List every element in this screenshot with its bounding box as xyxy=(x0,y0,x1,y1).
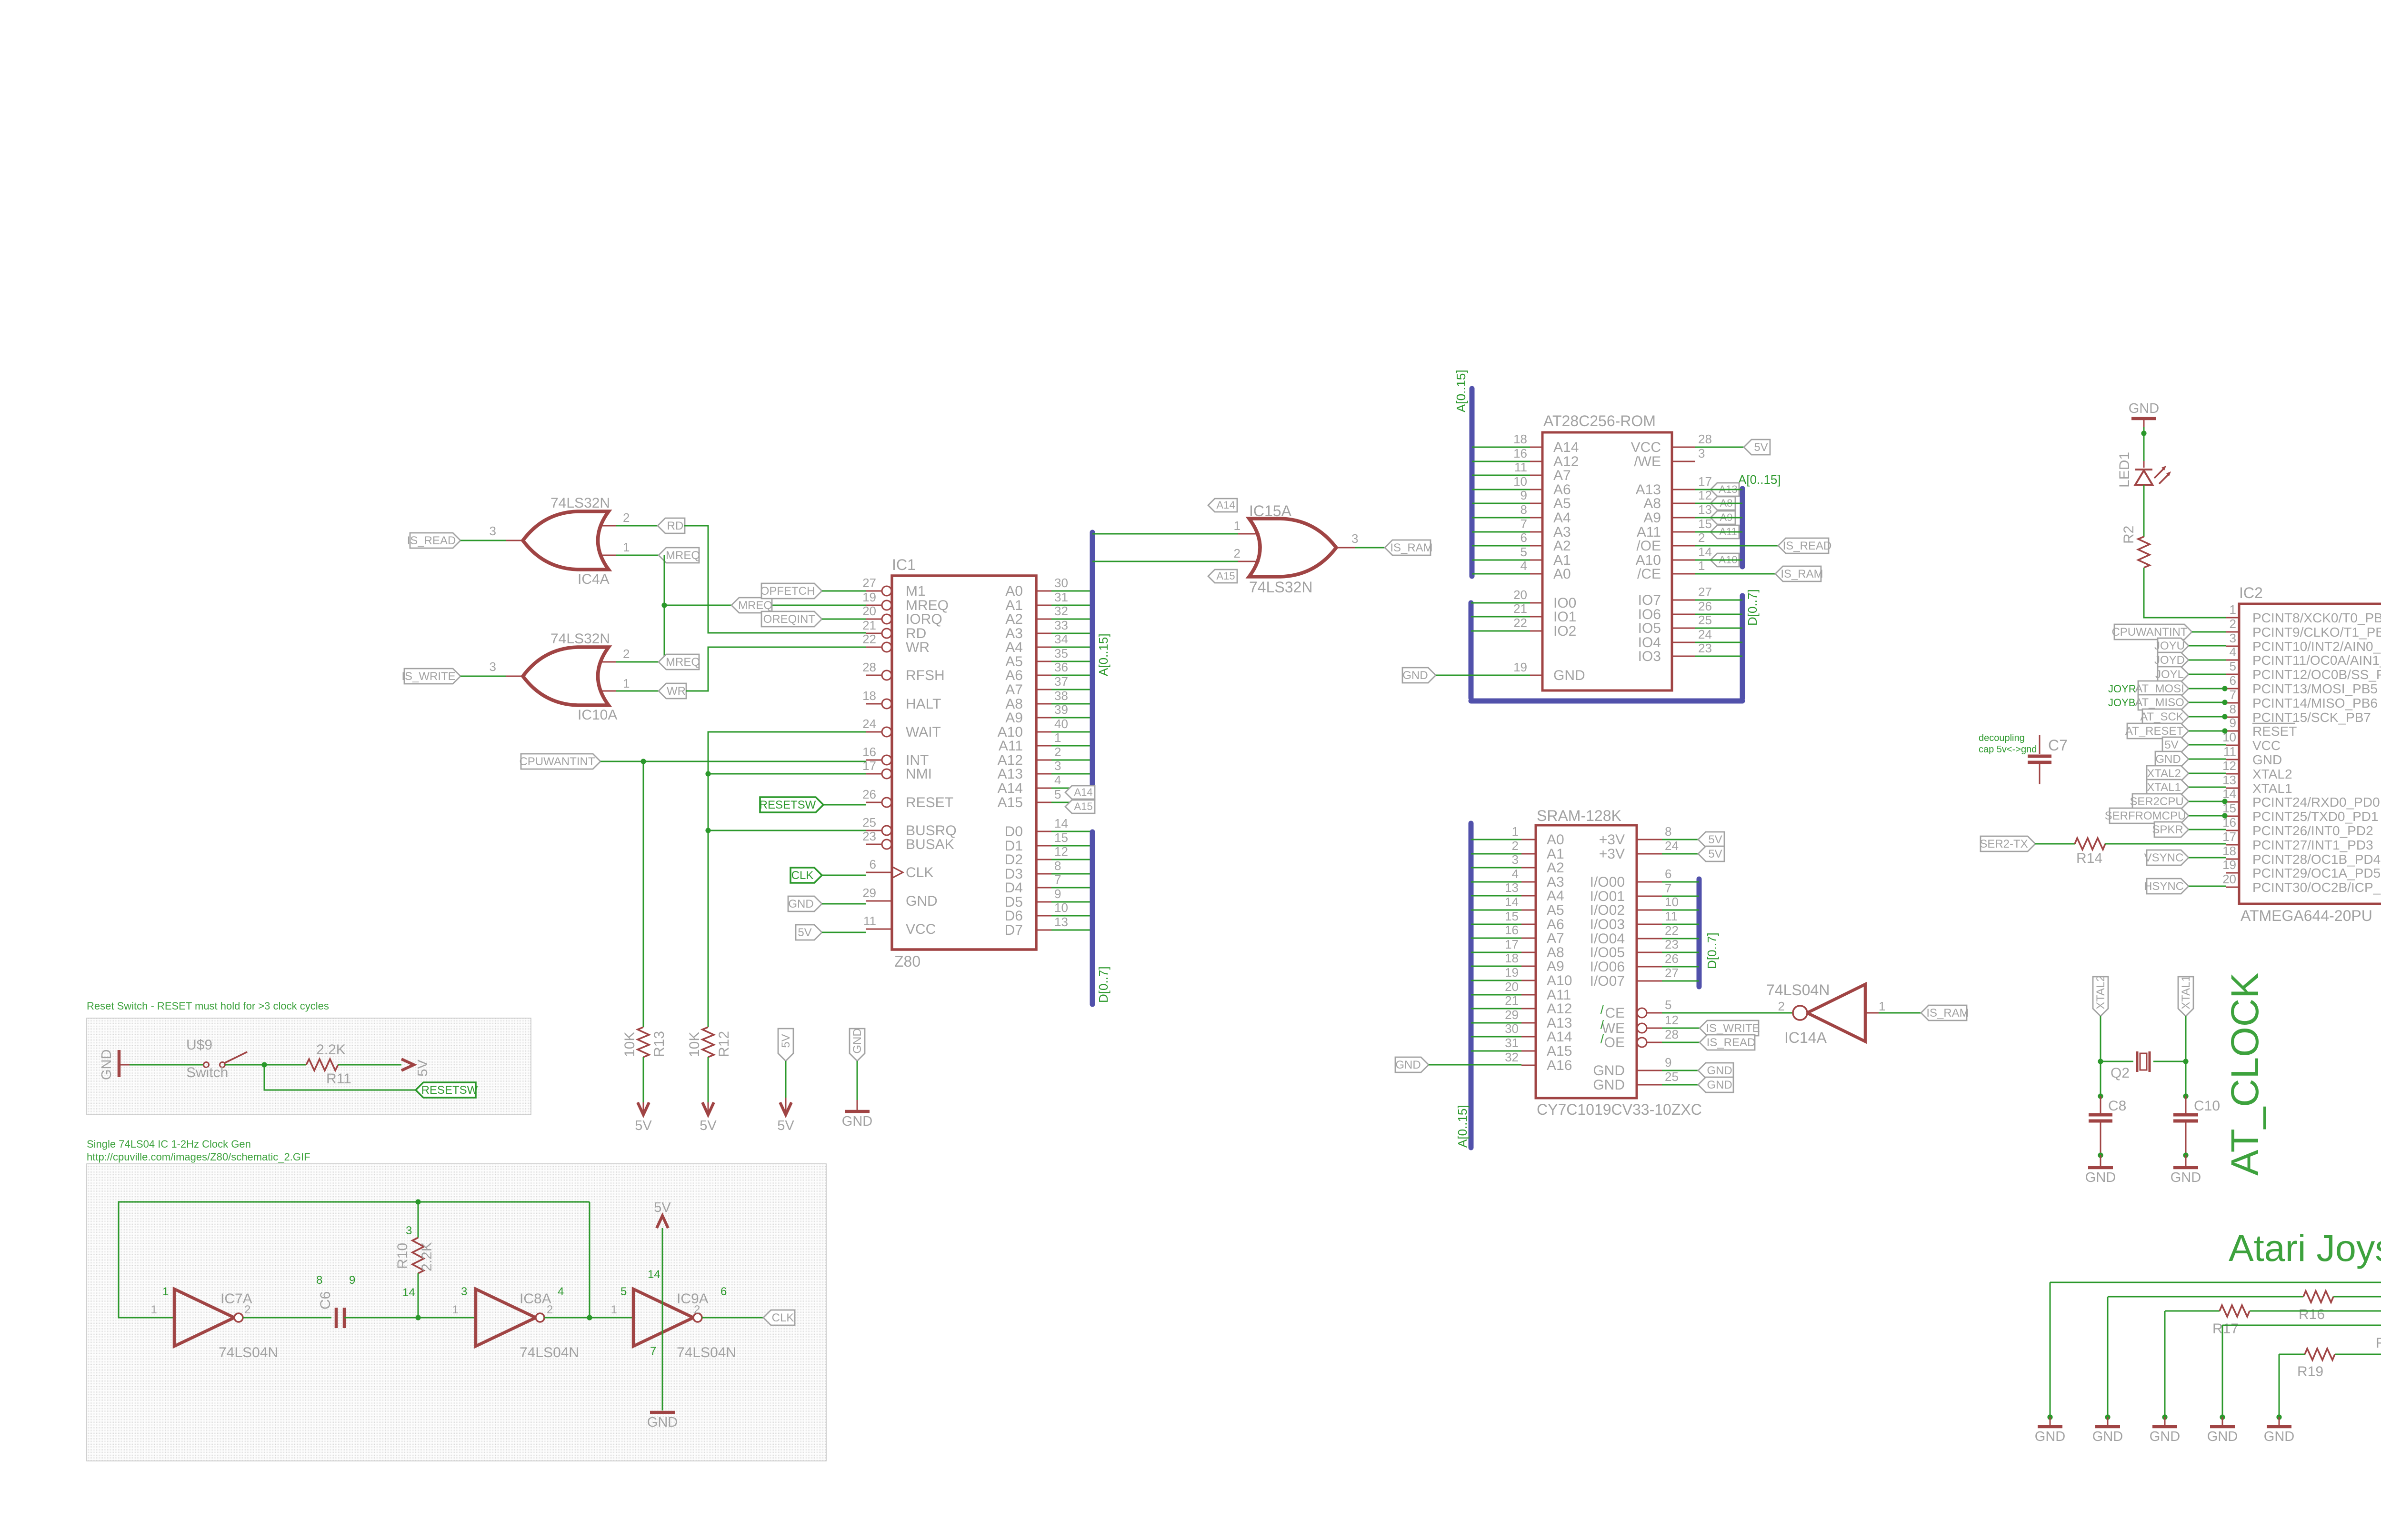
wire Z80 A9 to A-bus xyxy=(1051,717,1092,719)
flag IS_WRITE at SRAM xyxy=(1700,1020,1760,1036)
resistor R17 xyxy=(2212,1305,2250,1337)
wire R11 to 5V xyxy=(338,1064,401,1066)
wire SRAM A6 xyxy=(1471,924,1521,925)
svg-text:13: 13 xyxy=(2222,773,2236,787)
svg-text:MREQ: MREQ xyxy=(666,656,700,669)
svg-text:AT_SCK: AT_SCK xyxy=(2140,710,2184,723)
svg-text:IS_RAM: IS_RAM xyxy=(1390,541,1432,554)
svg-text:12: 12 xyxy=(2222,759,2236,773)
svg-text:PCINT27/INT1_PD3: PCINT27/INT1_PD3 xyxy=(2252,838,2373,852)
svg-text:Reset Switch - RESET must hold: Reset Switch - RESET must hold for >3 cl… xyxy=(87,1000,329,1012)
ground GND under C10 xyxy=(2171,1155,2201,1185)
junction C10 bottom xyxy=(2183,1152,2188,1158)
junction AT_RESET xyxy=(2222,728,2227,733)
svg-text:IO1: IO1 xyxy=(1553,609,1576,625)
flag MREQ b xyxy=(731,598,772,613)
label JOYB xyxy=(2108,697,2135,709)
flag IS_READ xyxy=(407,533,460,548)
svg-text:1: 1 xyxy=(2230,602,2236,617)
svg-text:RESETSW: RESETSW xyxy=(760,799,816,811)
wire Z80 D7 to D-bus xyxy=(1051,930,1092,931)
flag GND at Z80 xyxy=(788,896,822,911)
wire NMI to Z80 xyxy=(708,773,866,775)
flag VSYNC at IC2 xyxy=(2144,850,2189,865)
wire ROM A2 xyxy=(1472,545,1530,547)
switch U$9 xyxy=(186,1037,247,1080)
svg-text:5V: 5V xyxy=(777,1118,794,1133)
svg-text:A8: A8 xyxy=(1643,496,1661,511)
svg-text:4: 4 xyxy=(558,1285,564,1298)
wire SRAM GND pin9 xyxy=(1662,1070,1698,1071)
svg-text:JOYD: JOYD xyxy=(2154,654,2185,667)
svg-text:5V: 5V xyxy=(1708,833,1722,846)
flag A14 at IC15A xyxy=(1208,499,1237,512)
svg-text:A15: A15 xyxy=(1547,1043,1572,1059)
wire GND to Z80 xyxy=(822,903,866,905)
flag 5V at Z80 xyxy=(796,925,822,940)
wire ROM A6 xyxy=(1472,489,1530,490)
flag XTAL1 at IC2 xyxy=(2147,780,2189,795)
svg-text:31: 31 xyxy=(1505,1036,1519,1050)
svg-text:CLK: CLK xyxy=(906,865,933,880)
flag RESETSW xyxy=(416,1082,478,1098)
wire Z80 A6 to A-bus xyxy=(1051,675,1092,676)
svg-text:IC14A: IC14A xyxy=(1784,1029,1827,1046)
svg-text:A14: A14 xyxy=(1553,440,1579,455)
wire A-bus to IC15A.1 xyxy=(1092,533,1260,535)
svg-text:27: 27 xyxy=(1665,966,1679,980)
svg-text:3: 3 xyxy=(1698,446,1705,460)
wire JOYL xyxy=(2189,674,2226,675)
svg-text:22: 22 xyxy=(1665,923,1679,938)
flag CPUWANTINT at IC2 xyxy=(2111,624,2192,640)
svg-text:D[0..7]: D[0..7] xyxy=(1096,966,1110,1003)
svg-text:C7: C7 xyxy=(2048,737,2068,754)
svg-text:GND: GND xyxy=(1707,1064,1732,1077)
wire A-bus to IC15A.2 xyxy=(1092,561,1260,562)
svg-text:14: 14 xyxy=(648,1268,660,1281)
svg-text:IO2: IO2 xyxy=(1553,623,1576,639)
svg-text:2: 2 xyxy=(2230,617,2236,631)
svg-text:A4: A4 xyxy=(1553,510,1571,526)
svg-text:GND: GND xyxy=(2207,1429,2238,1444)
ground GND under C8 xyxy=(2085,1155,2116,1185)
svg-text:2: 2 xyxy=(547,1303,553,1316)
svg-text:D0: D0 xyxy=(1005,824,1023,840)
flag GND SRAM b xyxy=(1698,1077,1733,1092)
svg-text:D6: D6 xyxy=(1005,908,1023,924)
wire Z80 A11 to A-bus xyxy=(1051,745,1092,747)
junction NMI xyxy=(705,771,710,776)
svg-text:5V: 5V xyxy=(780,1034,792,1048)
note reset switch title xyxy=(87,1000,329,1012)
flag IS_RAM at IC14A xyxy=(1921,1005,1969,1020)
wire SRAM A4 xyxy=(1471,895,1521,897)
resistor R13 10K xyxy=(622,1027,667,1057)
wire SRAM A8 xyxy=(1471,952,1521,953)
bus A[0..15] ROM right xyxy=(1738,472,1781,567)
svg-text:5: 5 xyxy=(620,1285,627,1298)
wire switch to R11 xyxy=(225,1064,306,1066)
svg-text:I/O00: I/O00 xyxy=(1590,874,1625,890)
svg-text:3: 3 xyxy=(490,660,496,674)
title Atari Joystick xyxy=(2229,1227,2381,1269)
svg-text:Atari Joystick: Atari Joystick xyxy=(2229,1227,2381,1269)
wire AT_MOSI xyxy=(2189,688,2226,690)
svg-text:21: 21 xyxy=(862,618,876,632)
svg-text:GND: GND xyxy=(1402,669,1428,682)
svg-text:IS_WRITE: IS_WRITE xyxy=(401,670,455,683)
junction C8 bottom xyxy=(2098,1152,2103,1158)
junction RESETSW xyxy=(261,1062,267,1067)
junction XTAL1-Q2 xyxy=(2183,1059,2188,1064)
svg-text:R10: R10 xyxy=(395,1243,410,1269)
svg-text:RESET: RESET xyxy=(2252,724,2297,739)
svg-text:5: 5 xyxy=(1521,545,1527,559)
svg-text:/: / xyxy=(1601,1032,1604,1046)
svg-text:WR: WR xyxy=(906,640,930,655)
wire GND to SRAM A16 xyxy=(1429,1064,1521,1066)
flag A11 xyxy=(1711,525,1739,539)
wire SRAM I/O01 xyxy=(1662,896,1699,897)
flag MREQ a xyxy=(659,548,700,563)
svg-text:R2: R2 xyxy=(2121,526,2137,544)
svg-text:2: 2 xyxy=(1778,999,1785,1013)
svg-text:1: 1 xyxy=(151,1303,157,1316)
ground GND j5 xyxy=(2264,1417,2294,1444)
svg-text:1: 1 xyxy=(611,1303,617,1316)
svg-text:40: 40 xyxy=(1054,717,1068,731)
svg-text:XTAL1: XTAL1 xyxy=(2147,781,2181,794)
wire Z80 D4 to D-bus xyxy=(1051,887,1092,889)
wire AT_MISO xyxy=(2189,702,2226,703)
svg-text:31: 31 xyxy=(1054,590,1068,604)
svg-text:GND: GND xyxy=(647,1415,678,1430)
svg-text:GND: GND xyxy=(906,893,938,909)
svg-text:25: 25 xyxy=(1665,1070,1679,1084)
svg-text:3: 3 xyxy=(490,524,496,538)
junction GND j4 xyxy=(2220,1414,2225,1420)
junction LED top xyxy=(2141,430,2146,436)
svg-text:A5: A5 xyxy=(1547,902,1564,918)
svg-text:11: 11 xyxy=(2223,744,2236,759)
svg-text:A14: A14 xyxy=(1074,786,1092,798)
or-gate IC4A 74LS32N xyxy=(490,495,630,587)
svg-text:AT_MISO: AT_MISO xyxy=(2135,696,2184,709)
svg-text:GND: GND xyxy=(1553,668,1585,683)
svg-text:11: 11 xyxy=(1665,909,1678,923)
svg-text:5: 5 xyxy=(1665,998,1671,1012)
svg-text:11: 11 xyxy=(863,914,876,928)
svg-text:24: 24 xyxy=(1665,839,1679,853)
bus A[0..15] SRAM xyxy=(1455,823,1471,1148)
wire ROM IO3 xyxy=(1695,656,1742,657)
svg-text:4: 4 xyxy=(2230,645,2236,659)
or-gate IC15A 74LS32N xyxy=(1234,502,1359,596)
svg-text:6: 6 xyxy=(870,857,876,871)
frame clock gen panel xyxy=(87,1164,826,1461)
wire SRAM GND pin25 xyxy=(1662,1084,1698,1086)
wire VSYNC pin18 xyxy=(2189,857,2226,859)
flag A14 at bus xyxy=(1065,786,1095,799)
svg-text:M1: M1 xyxy=(906,583,926,599)
wire OPFETCH to Z80 xyxy=(822,590,866,592)
svg-text:CLK: CLK xyxy=(791,869,814,882)
svg-text:A9: A9 xyxy=(1547,959,1564,974)
wire IS_READ to IC4A xyxy=(460,540,506,541)
svg-text:JOYB: JOYB xyxy=(2108,697,2135,709)
svg-text:7: 7 xyxy=(650,1345,656,1358)
wire X6-1 net xyxy=(2050,1282,2381,1417)
flag SERFROMCPU at IC2 xyxy=(2105,808,2189,823)
flag AT_RESET xyxy=(2125,723,2189,739)
supply 5V above IC9A xyxy=(654,1200,671,1228)
svg-text:8: 8 xyxy=(2230,702,2236,716)
flag A9 xyxy=(1711,511,1735,524)
svg-text:PCINT29/OC1A_PD5: PCINT29/OC1A_PD5 xyxy=(2252,866,2381,880)
flag A13 xyxy=(1711,483,1739,496)
wire SER2CPU pin14 xyxy=(2189,801,2226,802)
svg-text:HSYNC: HSYNC xyxy=(2144,880,2184,893)
svg-text:18: 18 xyxy=(2222,844,2236,858)
svg-text:/WE: /WE xyxy=(1634,454,1661,470)
wire X6-3 net xyxy=(2165,1311,2381,1417)
svg-text:9: 9 xyxy=(1665,1055,1671,1070)
svg-text:IS_READ: IS_READ xyxy=(407,534,456,547)
wire ROM A11 xyxy=(1695,531,1742,533)
bus D[0..7] SRAM xyxy=(1699,879,1719,987)
svg-text:AT_RESET: AT_RESET xyxy=(2125,725,2184,738)
svg-text:I/O06: I/O06 xyxy=(1590,959,1625,975)
wire Z80 A15 to A-bus xyxy=(1051,802,1092,803)
wire IC14A out to IS_RAM xyxy=(1879,1012,1921,1014)
ground GND j3 xyxy=(2150,1417,2180,1444)
svg-text:7: 7 xyxy=(2230,688,2236,702)
svg-text:http://cpuville.com/images/Z80: http://cpuville.com/images/Z80/schematic… xyxy=(87,1151,310,1163)
wire CPUWANTINT to Z80 xyxy=(600,761,866,762)
flag 5V standalone xyxy=(778,1029,793,1061)
svg-text:XTAL2: XTAL2 xyxy=(2094,975,2107,1010)
or-gate IC10A 74LS32N xyxy=(490,631,630,723)
svg-text:PCINT30/OC2B/ICP_PD6: PCINT30/OC2B/ICP_PD6 xyxy=(2252,880,2381,895)
svg-text:C8: C8 xyxy=(2108,1098,2126,1114)
wire Z80 A5 to A-bus xyxy=(1051,661,1092,662)
svg-text:cap 5v<->gnd: cap 5v<->gnd xyxy=(1979,744,2037,755)
wire GND to ROM pin19 xyxy=(1436,675,1530,676)
svg-text:5V: 5V xyxy=(1708,848,1722,860)
wire ROM A0 xyxy=(1472,573,1530,575)
svg-text:JOYR: JOYR xyxy=(2108,683,2136,695)
wire R2 down xyxy=(2143,568,2145,590)
svg-text:GND: GND xyxy=(2035,1429,2065,1444)
wire SRAM I/O05 xyxy=(1662,952,1699,953)
svg-text:74LS32N: 74LS32N xyxy=(1249,579,1312,596)
wire C6 to IC8A xyxy=(344,1317,476,1319)
junction SERFROMCPU xyxy=(2222,813,2227,818)
wire SRAM /CE to IC14A xyxy=(1662,1012,1792,1014)
svg-text:GND: GND xyxy=(2155,753,2181,766)
flag SER2-TX left xyxy=(1980,836,2035,851)
wire ROM A10 xyxy=(1695,560,1742,561)
svg-text:17: 17 xyxy=(2222,830,2236,844)
wire Z80 A1 to A-bus xyxy=(1051,605,1092,606)
svg-text:9: 9 xyxy=(1054,887,1061,901)
svg-text:A15: A15 xyxy=(998,795,1023,810)
wire SER2-TX to R14 xyxy=(2035,843,2075,845)
wire XTAL1 pin13 xyxy=(2189,787,2226,788)
svg-text:27: 27 xyxy=(1698,585,1712,599)
svg-text:A2: A2 xyxy=(1547,860,1564,876)
svg-text:SERFROMCPU: SERFROMCPU xyxy=(2105,810,2186,822)
svg-text:AT_CLOCK: AT_CLOCK xyxy=(2223,972,2267,1176)
svg-text:SER2CPU: SER2CPU xyxy=(2130,795,2183,808)
flag A10 xyxy=(1711,553,1739,567)
svg-text:4: 4 xyxy=(1512,867,1519,881)
wire 5V flag to arrow xyxy=(785,1061,787,1112)
svg-text:PCINT13/MOSI_PB5: PCINT13/MOSI_PB5 xyxy=(2252,681,2378,696)
svg-text:A2: A2 xyxy=(1553,538,1571,554)
wire Z80 D2 to D-bus xyxy=(1051,859,1092,860)
flag CLK out xyxy=(763,1310,795,1325)
wire 5V pin10 xyxy=(2189,744,2226,746)
junction GND j2 xyxy=(2105,1414,2110,1420)
svg-text:GND: GND xyxy=(2171,1170,2201,1185)
svg-text:/: / xyxy=(1601,1018,1604,1032)
flag GND SRAM a xyxy=(1698,1063,1733,1078)
junction C6-R10 xyxy=(415,1315,420,1320)
svg-text:CE: CE xyxy=(1605,1005,1625,1021)
svg-text:Z80: Z80 xyxy=(894,953,920,970)
svg-text:IC15A: IC15A xyxy=(1249,502,1292,520)
wire CLK to Z80 xyxy=(822,875,866,876)
flag SPKR at IC2 xyxy=(2152,822,2189,837)
svg-text:VCC: VCC xyxy=(1631,440,1661,455)
svg-text:2: 2 xyxy=(1054,745,1061,759)
svg-text:14: 14 xyxy=(1698,545,1712,559)
svg-text:15: 15 xyxy=(1698,517,1712,531)
ground GND j4 xyxy=(2207,1417,2238,1444)
svg-text:PCINT10/INT2/AIN0_PB2: PCINT10/INT2/AIN0_PB2 xyxy=(2252,639,2381,654)
flag A15 at IC15A xyxy=(1208,570,1237,583)
wire SPKR pin16 xyxy=(2189,829,2226,830)
bus D[0..7] Z80 xyxy=(1092,832,1110,1004)
svg-text:9: 9 xyxy=(2230,716,2236,730)
svg-text:1: 1 xyxy=(162,1285,169,1298)
title AT_CLOCK xyxy=(2223,972,2267,1176)
flag RD xyxy=(658,518,685,533)
svg-text:GND: GND xyxy=(99,1050,114,1080)
svg-text:CY7C1019CV33-10ZXC: CY7C1019CV33-10ZXC xyxy=(1537,1101,1702,1118)
IC SRAM-128K CY7C1019CV33-10ZXC xyxy=(1505,807,1702,1118)
ground GND standalone xyxy=(842,1111,872,1129)
svg-text:26: 26 xyxy=(1665,951,1679,966)
svg-text:1: 1 xyxy=(452,1303,459,1316)
svg-text:A0: A0 xyxy=(1553,566,1571,582)
svg-text:1: 1 xyxy=(1879,999,1885,1013)
wire HSYNC pin20 xyxy=(2189,886,2226,887)
inverter IC8A 74LS04N xyxy=(452,1285,579,1360)
svg-text:/: / xyxy=(1601,1002,1604,1017)
wire SRAM +3V pin24 xyxy=(1662,853,1698,855)
ground GND rotated xyxy=(99,1050,130,1080)
wire ROM VCC to 5V xyxy=(1695,447,1744,448)
wire SRAM A15 xyxy=(1471,1050,1521,1052)
svg-text:A16: A16 xyxy=(1547,1058,1572,1073)
svg-text:PCINT11/OC0A/AIN1_PB3: PCINT11/OC0A/AIN1_PB3 xyxy=(2252,653,2381,668)
svg-text:15: 15 xyxy=(1054,830,1068,845)
svg-text:R11: R11 xyxy=(326,1071,351,1087)
wire R14 to pin17 xyxy=(2105,843,2226,845)
wire Z80 D0 to D-bus xyxy=(1051,831,1092,832)
wire SRAM A11 xyxy=(1471,994,1521,996)
junction feedback xyxy=(587,1315,592,1320)
wire JOYU xyxy=(2189,645,2226,647)
wire SRAM +3V pin8 xyxy=(1662,839,1698,840)
junction C10 top xyxy=(2183,1093,2188,1099)
IC IC1 Z80 xyxy=(862,556,1068,970)
svg-text:A[0..15]: A[0..15] xyxy=(1738,472,1781,487)
svg-text:29: 29 xyxy=(1505,1008,1519,1022)
junction GND j3 xyxy=(2162,1414,2167,1420)
junction AT_MOSI xyxy=(2222,686,2227,691)
junction CPUWANTINT xyxy=(640,759,646,764)
svg-text:R14: R14 xyxy=(2076,850,2102,866)
wire IC4A.1 MREQ xyxy=(616,555,664,556)
svg-text:PCINT28/OC1B_PD4: PCINT28/OC1B_PD4 xyxy=(2252,852,2381,867)
flag A15 at bus xyxy=(1065,800,1095,813)
wire 5V to Z80 xyxy=(822,932,866,933)
supply 5V below R12 xyxy=(700,1102,717,1133)
svg-text:2: 2 xyxy=(244,1303,250,1316)
svg-text:XTAL2: XTAL2 xyxy=(2147,767,2181,780)
wire R13 to 5V xyxy=(643,1057,644,1112)
flag AT_SCK xyxy=(2140,709,2189,724)
svg-text:GND: GND xyxy=(2129,401,2159,416)
svg-text:IO7: IO7 xyxy=(1638,592,1661,608)
svg-text:19: 19 xyxy=(2222,858,2236,872)
svg-text:PCINT26/INT0_PD2: PCINT26/INT0_PD2 xyxy=(2252,823,2373,838)
wire WR to Z80 xyxy=(686,647,866,691)
svg-text:IO5: IO5 xyxy=(1638,620,1661,636)
svg-text:6: 6 xyxy=(720,1285,727,1298)
svg-text:D7: D7 xyxy=(1005,922,1023,938)
flag AT_MOSI xyxy=(2135,681,2189,696)
svg-text:AT28C256-ROM: AT28C256-ROM xyxy=(1543,412,1656,430)
svg-text:A9: A9 xyxy=(1643,510,1661,526)
svg-text:U$9: U$9 xyxy=(186,1037,212,1053)
svg-text:74LS04N: 74LS04N xyxy=(520,1345,579,1360)
svg-text:6: 6 xyxy=(1665,867,1671,881)
wire ROM IO5 xyxy=(1695,628,1742,629)
wire IOREQINT to Z80 xyxy=(822,619,866,620)
wire ROM A7 xyxy=(1472,475,1530,476)
svg-text:1: 1 xyxy=(1234,519,1241,533)
svg-text:32: 32 xyxy=(1505,1050,1519,1064)
svg-text:A4: A4 xyxy=(1547,888,1564,904)
resistor R16 xyxy=(2299,1291,2333,1322)
svg-text:R16: R16 xyxy=(2299,1307,2325,1322)
svg-text:PCINT24/RXD0_PD0: PCINT24/RXD0_PD0 xyxy=(2252,795,2380,810)
svg-text:VCC: VCC xyxy=(906,921,936,937)
svg-text:NMI: NMI xyxy=(906,766,932,782)
svg-text:14: 14 xyxy=(1054,816,1068,830)
flag IS_READ at SRAM xyxy=(1700,1035,1755,1050)
svg-text:IC10A: IC10A xyxy=(578,707,617,723)
svg-text:28: 28 xyxy=(1698,432,1712,446)
svg-text:A9: A9 xyxy=(1005,710,1023,726)
svg-text:28: 28 xyxy=(862,660,876,674)
flag 5V at IC2 xyxy=(2162,737,2189,752)
